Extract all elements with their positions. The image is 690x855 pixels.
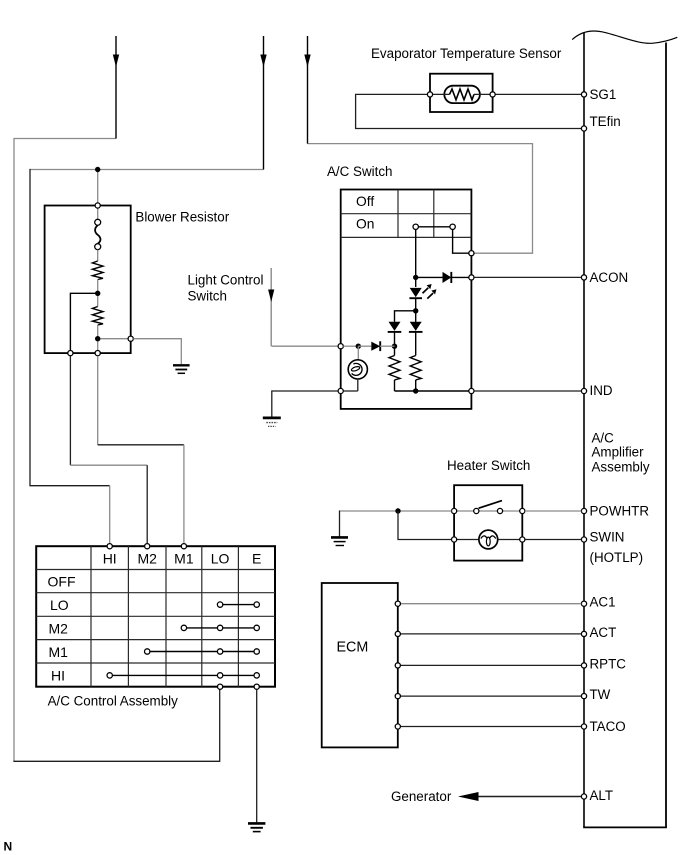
On-contact left circle: [413, 224, 418, 229]
svg-text:IND: IND: [590, 383, 613, 398]
table vertical line 2: [127, 546, 129, 687]
wire IND terminal to amplifier (gray): [474, 390, 581, 392]
A/C switch left terminal (illumination feed): [338, 344, 343, 349]
svg-text:E: E: [252, 551, 261, 567]
A/C switch table row divider: [341, 213, 472, 215]
table top terminal M1: [181, 544, 186, 549]
A/C Control Assembly table outer box: [36, 546, 275, 687]
ECM box: [322, 583, 398, 747]
A/C Switch outer box: [341, 190, 472, 409]
terminal SWIN (HOTLP): [581, 537, 586, 542]
ground G1 (blower): [173, 365, 190, 373]
junction at lamp top: [356, 344, 361, 349]
heater switch terminal right row1: [520, 508, 525, 513]
HI row contact circles: [107, 673, 112, 678]
A/C Amplifier Assembly label: [592, 431, 650, 475]
heater switch contact right: [497, 508, 502, 513]
wire ECM TACO (dark): [400, 726, 581, 728]
svg-text:On: On: [356, 217, 374, 232]
ECM terminal RPTC: [395, 663, 400, 668]
wire E terminal to ground (dark): [256, 689, 258, 822]
svg-text:A/C: A/C: [592, 431, 615, 446]
svg-text:Amplifier: Amplifier: [592, 445, 645, 460]
A/C Amplifier Assembly box right edge: [665, 43, 667, 828]
bottom wire dark segment to IND terminal: [395, 390, 469, 392]
wire ECM ACT (dark): [400, 633, 581, 635]
wire HI column drop (gray): [109, 486, 111, 547]
wire heater switch row2 inside (gray): [454, 539, 522, 541]
table vertical line 3: [165, 546, 167, 687]
wire ECM AC1 (gray): [400, 603, 581, 605]
table row labels: [48, 574, 76, 684]
wire sensor loop to TEfin (gray): [356, 94, 584, 128]
blower tap wire to right edge terminal: [98, 338, 128, 340]
heater switch blade: [479, 501, 502, 509]
terminal ACT: [581, 631, 586, 636]
diode down right: [409, 322, 423, 332]
Light Control Switch label: [188, 273, 264, 304]
internal main vertical from contact to LED: [415, 230, 417, 288]
junction bottom: [413, 388, 418, 393]
ECM terminal AC1: [395, 601, 400, 606]
resistor right in A/C switch: [410, 356, 421, 380]
fusible link arrow 2: [260, 36, 266, 170]
wire from fuse arrow 1 to LO loop (gray): [14, 139, 116, 762]
generator arrow: [458, 792, 581, 801]
Light Control Switch arrow: [268, 268, 274, 346]
svg-text:ACON: ACON: [590, 270, 629, 285]
A/C Amplifier Assembly box bottom edge: [583, 826, 667, 828]
wire blower left to M2 column: vertical dark: [69, 356, 71, 466]
blower tap junction: [95, 291, 100, 296]
blower bottom terminal center: [95, 351, 100, 356]
wire right resistor to bottom: [415, 380, 417, 391]
terminal POWHTR: [581, 508, 586, 513]
LO row contact circles: [217, 602, 222, 607]
wire A/C switch to ground (gray): [272, 391, 338, 417]
illumination lamp: [348, 360, 367, 379]
wire ECM TW (dark): [400, 695, 581, 697]
On-contact bridge line: [417, 226, 451, 228]
svg-text:Light Control: Light Control: [188, 273, 264, 288]
terminal TACO: [581, 724, 586, 729]
table top terminal HI: [107, 544, 112, 549]
svg-text:Generator: Generator: [391, 789, 452, 804]
blower top terminal: [95, 203, 100, 208]
svg-text:Blower Resistor: Blower Resistor: [135, 210, 229, 225]
table horizontal line 1: [36, 569, 275, 571]
terminal ALT: [581, 794, 586, 799]
table horizontal line 4: [36, 639, 275, 641]
ECM terminal ACT: [395, 631, 400, 636]
LO row contact bridge: [220, 604, 257, 606]
svg-text:OFF: OFF: [48, 574, 76, 590]
ECM terminal TACO: [395, 724, 400, 729]
wire heater switch row1 inside (gray): [454, 510, 522, 512]
Blower Resistor box: [45, 206, 131, 354]
terminal RPTC: [581, 663, 586, 668]
svg-text:M2: M2: [49, 621, 69, 637]
thermistor zigzag: [430, 93, 450, 95]
svg-text:A/C Control Assembly: A/C Control Assembly: [48, 694, 179, 709]
fusible link arrow 1: [113, 36, 119, 139]
svg-text:N: N: [4, 840, 13, 854]
heater switch terminal left row2: [452, 537, 457, 542]
terminal IND: [581, 388, 586, 393]
blower wire resistor2 to bottom terminal: [97, 325, 99, 351]
wire junction to illumination diode: [358, 345, 371, 347]
blower right edge terminal: [128, 336, 133, 341]
junction at blower feed: [95, 167, 100, 172]
sensor terminal left: [427, 92, 432, 97]
terminal ACON: [581, 275, 586, 280]
junction heater ground branch: [395, 508, 400, 513]
Heater Switch box: [454, 485, 522, 560]
heater switch terminal right row2: [520, 537, 525, 542]
wire ACON terminal to amplifier (gray): [474, 276, 581, 278]
ground G3 (heater switch): [331, 537, 348, 545]
svg-text:POWHTR: POWHTR: [590, 504, 650, 519]
svg-text:(HOTLP): (HOTLP): [590, 550, 644, 565]
blower wire fuse to resistor 1: [97, 250, 99, 261]
wire light control switch to A/C switch (gray): [272, 345, 341, 347]
A/C switch IND terminal: [469, 388, 474, 393]
wire blower center to M1 column: vertical gray: [97, 356, 99, 445]
svg-text:AC1: AC1: [590, 595, 616, 610]
svg-text:M1: M1: [174, 551, 194, 567]
table bottom terminal LO: [218, 684, 223, 689]
terminal TW: [581, 694, 586, 699]
heater indicator lamp: [479, 530, 498, 549]
M1 row contact circles: [145, 649, 150, 654]
svg-text:SWIN: SWIN: [590, 530, 625, 545]
sensor terminal right: [490, 92, 495, 97]
svg-text:TW: TW: [590, 687, 611, 702]
terminal AC1: [581, 601, 586, 606]
wire right diode to resistor: [415, 332, 417, 356]
wire M1 column drop (gray): [183, 445, 185, 547]
A/C switch table bottom edge: [341, 236, 472, 238]
wire left resistor to bottom: [394, 380, 396, 391]
wire terminal to lamp junction (gray): [343, 345, 358, 347]
wire diode to ACON terminal: [451, 276, 469, 278]
svg-text:ALT: ALT: [590, 788, 614, 803]
diode to ACON: [443, 272, 452, 283]
bottom wire gray segment: [343, 390, 358, 392]
wire blower center to M1 column: horizontal dark: [98, 444, 184, 446]
wire sensor to SG1 (gray): [493, 93, 584, 95]
wire heater to ground (gray): [340, 510, 452, 512]
svg-text:M2: M2: [137, 551, 157, 567]
svg-text:ECM: ECM: [337, 640, 369, 656]
svg-text:Evaporator Temperature Sensor: Evaporator Temperature Sensor: [371, 46, 562, 61]
M1 row contact bridge: [147, 651, 257, 653]
svg-text:LO: LO: [211, 551, 230, 567]
table header labels: [103, 551, 262, 567]
wire LO loop bottom (dark): [13, 689, 219, 761]
svg-text:SG1: SG1: [590, 87, 617, 102]
blower tap wire to bottom-left terminal: [70, 293, 97, 350]
A/C switch table column divider 1: [397, 190, 399, 238]
M2 row contact bridge: [184, 627, 257, 629]
wire heater to POWHTR (gray): [525, 510, 582, 512]
wire junction to row2 (gray): [398, 511, 452, 540]
table vertical line 4: [201, 546, 203, 687]
ACON branch wire: [416, 276, 443, 278]
wire M2 column drop (dark): [146, 465, 148, 546]
blower lower tap junction: [95, 336, 100, 341]
wire blower left to M2 column: horizontal gray: [70, 464, 147, 466]
heater switch terminal left row1: [452, 508, 457, 513]
On-contact right circle: [450, 224, 455, 229]
svg-text:Switch: Switch: [188, 289, 227, 304]
resistor left in A/C switch: [389, 356, 400, 380]
svg-text:A/C Switch: A/C Switch: [327, 164, 392, 179]
M2 row contact circles: [181, 625, 186, 630]
wire ECM RPTC (dark): [400, 664, 581, 666]
wire from fuse arrow 3 to A/C switch terminal (gray): [308, 144, 533, 254]
internal wire contact to top-right terminal: [453, 230, 469, 254]
svg-text:ACT: ACT: [590, 625, 617, 640]
A/C switch top-right terminal: [469, 251, 474, 256]
svg-text:TEfin: TEfin: [590, 114, 621, 129]
table horizontal line 3: [36, 615, 275, 617]
Evaporator Temperature Sensor box: [430, 74, 493, 112]
blower wire resistor1 to resistor2: [97, 280, 99, 307]
illumination diode: [371, 341, 380, 351]
ground G4 (control assembly): [248, 823, 265, 831]
ECM terminal TW: [395, 694, 400, 699]
blower bottom terminal left: [68, 351, 73, 356]
blower resistor element 2: [92, 307, 103, 326]
thermistor stadium symbol: [444, 86, 480, 103]
table bottom terminal E: [254, 684, 259, 689]
svg-text:Off: Off: [356, 194, 374, 209]
svg-text:RPTC: RPTC: [590, 657, 627, 672]
A/C switch bottom-left terminal: [338, 388, 343, 393]
heater switch contact left: [474, 508, 479, 513]
wire from fuse arrow 2 horizontal (gray): [30, 169, 264, 171]
svg-text:LO: LO: [50, 597, 69, 613]
svg-text:Assembly: Assembly: [592, 460, 650, 475]
thermal fuse element squiggle: [95, 225, 100, 243]
junction left string at lamp feed: [392, 344, 397, 349]
A/C Amplifier Assembly box left edge: [583, 33, 585, 827]
ground G2 (A/C switch illumination): [263, 418, 281, 427]
terminal SG1: [581, 92, 586, 97]
junction below LED: [413, 308, 418, 313]
terminal TEfin: [581, 126, 586, 131]
table top terminal M2: [145, 544, 150, 549]
blower internal wire top: [97, 208, 99, 219]
wire LED to lower junction: [415, 298, 417, 322]
wire heater to SWIN (gray): [525, 539, 582, 541]
wire diode to left string: [380, 345, 395, 347]
A/C switch ACON terminal: [469, 275, 474, 280]
wire arrow2 to HI column (dark vertical and horizontal): [30, 169, 110, 486]
table vertical line 1: [90, 546, 92, 687]
svg-text:HI: HI: [103, 551, 117, 567]
branch wire to left diode string: [395, 311, 416, 322]
svg-text:TACO: TACO: [590, 719, 626, 734]
A/C Amplifier Assembly torn-top wavy line: [572, 31, 677, 43]
A/C switch table column divider 2: [433, 190, 435, 238]
blower resistor element 1: [92, 261, 103, 280]
table horizontal line 5: [36, 662, 275, 664]
svg-text:Heater Switch: Heater Switch: [447, 458, 530, 473]
wire left diode to resistor: [394, 332, 396, 356]
LED emission arrows: [423, 284, 437, 299]
svg-text:M1: M1: [49, 644, 69, 660]
wire lamp bottom lead (gray): [357, 379, 359, 391]
table vertical line 5: [237, 546, 239, 687]
LED indicator diode: [409, 288, 422, 298]
wire lamp top lead (gray): [357, 346, 359, 360]
fusible link arrow 3: [304, 36, 310, 144]
wire blower to ground (gray): [133, 339, 181, 365]
junction at ACON branch: [413, 275, 418, 280]
HI row contact bridge: [110, 674, 257, 676]
svg-text:HI: HI: [51, 667, 65, 683]
thermal fuse lower contact: [95, 244, 101, 250]
diode down left: [388, 322, 402, 332]
thermal fuse upper contact: [95, 219, 101, 225]
wire branch to blower resistor (gray): [97, 170, 99, 206]
table horizontal line 2: [36, 592, 275, 594]
